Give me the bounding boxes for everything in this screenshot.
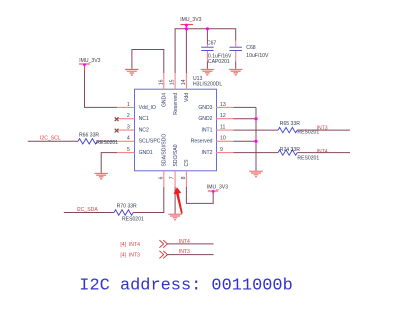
junction dot pin12/rail [254,117,257,120]
svg-text:GND1: GND1 [139,150,153,156]
svg-text:IMU_3V3: IMU_3V3 [207,184,228,190]
wire: pin 5 to ground [101,153,117,173]
wire: pin12 to gnd rail [233,118,256,120]
svg-text:[4] INT3: [4] INT3 [120,253,140,259]
svg-text:SDO/SA0: SDO/SA0 [173,144,179,166]
IC left pins 1-5 stubs [117,107,135,152]
wire: C67 drop from vdd bus [206,29,208,41]
no-connect X on pin 2 [115,117,119,121]
power symbol IMU_3V3 (pin 8 / CS) [207,184,228,194]
svg-text:7: 7 [170,176,176,179]
svg-text:11: 11 [220,125,225,131]
IC bottom pins 6,7,8 stubs [164,171,187,187]
svg-text:R74 33R: R74 33R [280,147,300,153]
svg-text:3: 3 [127,125,130,131]
svg-text:Vdd_IO: Vdd_IO [139,105,156,111]
svg-text:NC2: NC2 [139,128,149,134]
wire: R74 to INT4 [297,152,350,154]
svg-text:GND3: GND3 [198,105,212,111]
svg-text:13: 13 [220,102,226,108]
resistor R70 33R [114,204,144,223]
svg-text:INT2: INT2 [201,150,212,156]
wire: R70 to pin 6 [133,187,164,213]
svg-text:12: 12 [220,113,226,119]
svg-text:C68: C68 [246,45,256,51]
wire: INT3 stub [167,254,213,256]
resistor R65 33R [278,121,319,136]
power symbol IMU_3V3 (left, pin 1) [79,58,101,71]
svg-text:[4] INT4: [4] INT4 [120,242,140,248]
svg-text:15: 15 [170,79,176,85]
power symbol IMU_3V3 (top, above pin 14) [180,17,201,29]
svg-text:R70 33R: R70 33R [117,204,137,210]
wire: pin16 hook to ground (top-left) [132,50,164,74]
svg-text:5: 5 [127,147,130,153]
wire: C68 to ground [235,62,237,69]
svg-text:6: 6 [158,176,164,179]
junction dot at pin14/vdd bus [185,27,188,30]
wire: INT4 stub [167,243,213,245]
svg-text:4: 4 [127,136,130,142]
svg-text:CAP0201: CAP0201 [208,59,230,65]
svg-text:14: 14 [181,79,187,85]
ground at pin 5 (GND1) [94,173,108,179]
wire: IMU_3V3 to pin 1 [85,71,118,107]
IC U13 H3LIS200DL body [135,76,223,171]
svg-text:GND4: GND4 [162,93,168,107]
svg-text:SCL/SPC: SCL/SPC [139,139,161,145]
ground right rail [249,171,263,177]
wire: pin9 to R74 [233,152,278,154]
svg-text:R65 33R: R65 33R [280,121,300,127]
svg-text:10: 10 [220,136,226,142]
wire: vdd bus from pin15 along top to C68 [175,29,236,73]
IC bottom pin names (rotated) [162,134,191,167]
ground under C68 [229,69,243,75]
svg-text:10uF/10V: 10uF/10V [246,53,269,59]
wire: pin10 to gnd rail [233,140,256,142]
svg-text:Reserved: Reserved [191,139,213,145]
junction dot at C67/vdd bus [206,27,209,30]
IC top pin names (rotated) [162,93,191,115]
IC right pins 13,12,11,10,9 stubs [216,107,233,152]
ground top-left (GND4 net) [125,69,139,75]
resistor R66 33R [78,132,118,146]
svg-text:GND2: GND2 [198,116,212,122]
svg-text:R66 33R: R66 33R [79,132,99,138]
capacitor C68 [230,41,269,62]
capacitor C67 [201,40,232,65]
svg-text:I2C address: 0011000b: I2C address: 0011000b [79,276,292,295]
svg-text:IMU_3V3: IMU_3V3 [180,17,201,23]
svg-text:H3LIS200DL: H3LIS200DL [193,82,222,88]
pin numbers 1-5 [127,102,130,153]
wire: I2C_SDA to R70 [64,212,114,214]
ground under C67 [201,69,215,75]
svg-text:SDA/SDI/SDO: SDA/SDI/SDO [162,134,168,167]
wire: pin 8 to IMU_3V3 [186,187,213,203]
wire: C67 to ground [206,62,208,69]
svg-text:RES0201: RES0201 [122,217,144,223]
wire: I2C_SCL to R66 [28,140,78,142]
wire: pin13 to gnd rail [233,106,256,108]
wire: pin11 to R65 [233,129,278,131]
svg-text:Reserved: Reserved [173,93,179,115]
resistor R74 33R [278,147,319,161]
IC right pin names [191,105,213,156]
red annotation arrow pointing at pin 7 [174,187,183,214]
wire: R66 to pin 4 [97,140,117,142]
pin numbers right [220,102,226,153]
svg-text:INT1: INT1 [201,128,212,134]
svg-text:RES0201: RES0201 [297,156,319,162]
wire: pin 7 to ground [174,187,176,214]
IC top pins 16,15,14 stubs [164,73,187,89]
off-page connector [4] INT4 [120,240,167,248]
pin numbers top (rotated) [158,79,187,85]
pin numbers bottom (rotated) [158,176,187,179]
svg-text:8: 8 [181,176,187,179]
off-page connector [4] INT3 [120,251,167,259]
svg-text:9: 9 [220,147,223,153]
no-connect X on pin 3 [115,129,119,133]
svg-text:CS: CS [184,159,190,167]
svg-text:IMU_3V3: IMU_3V3 [79,58,100,64]
IC left pin names [139,105,161,156]
ground at pin 7 [168,214,182,220]
junction dot pin10/rail [254,140,257,143]
wire: right gnd rail vertical [255,107,257,170]
svg-text:16: 16 [158,79,164,85]
svg-text:NC1: NC1 [139,116,149,122]
svg-text:1: 1 [127,102,130,108]
svg-text:Vdd: Vdd [184,93,190,102]
svg-text:C67: C67 [207,40,217,46]
svg-text:2: 2 [127,113,130,119]
wire: pin14 to vdd bus [185,29,187,73]
wire: R65 to INT3 [297,129,350,131]
